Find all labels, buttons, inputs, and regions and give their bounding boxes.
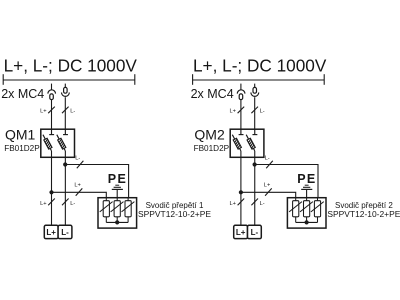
wire L+ from MC4 connector down to breaker QM1 (circuit 1) bbox=[51, 100, 53, 130]
svg-text:L+: L+ bbox=[46, 228, 56, 237]
varistor element 2 (PE leg) of surge arrester (circuit 2) bbox=[300, 198, 313, 223]
output terminal block L+ (circuit 1) bbox=[44, 225, 58, 238]
MC4 connector pair, L- pole: pin over socket (circuit 2) bbox=[251, 87, 259, 96]
svg-text:2x MC4: 2x MC4 bbox=[191, 87, 234, 101]
conductor mark (slash) on wire L+ below connector (circuit 1) bbox=[48, 107, 55, 114]
conductor mark (slash) on wire L- above terminal (circuit 2) bbox=[251, 199, 258, 206]
svg-text:L-: L- bbox=[70, 201, 75, 207]
svg-text:L-: L- bbox=[265, 155, 270, 161]
wire L+ branch to surge arrester: horizontal then down (circuit 1) bbox=[52, 192, 107, 200]
wire L+ from breaker QM1 down to L+ junction (circuit 1) bbox=[51, 151, 53, 192]
junction node on surge arrester common bar (circuit 2) bbox=[305, 220, 309, 224]
svg-text:FB01D2P: FB01D2P bbox=[4, 144, 40, 153]
wire L- from MC4 connector down to breaker QM1 (circuit 1) bbox=[64, 97, 66, 129]
common bottom bar inside surge arrester (circuit 2) bbox=[296, 221, 318, 223]
wire L+ top stub into MC4 connector (circuit 2) bbox=[240, 84, 242, 90]
common bottom bar inside surge arrester (circuit 1) bbox=[106, 221, 128, 223]
svg-text:L-: L- bbox=[75, 155, 80, 161]
svg-text:FB01D2P: FB01D2P bbox=[194, 144, 230, 153]
conductor mark (slash) on wire L- below connector (circuit 2) bbox=[251, 107, 258, 114]
MC4 connector pair, L+ pole: socket over pin (circuit 2) bbox=[237, 90, 245, 100]
junction node on L+ wire (circuit 2) bbox=[239, 190, 243, 194]
svg-text:L+, L-; DC 1000V: L+, L-; DC 1000V bbox=[4, 55, 138, 75]
svg-text:PE: PE bbox=[297, 172, 316, 186]
conductor mark (slash) on wire L+ below connector (circuit 2) bbox=[238, 107, 245, 114]
svg-text:L+: L+ bbox=[40, 201, 47, 207]
wire L+ from MC4 connector down to breaker QM2 (circuit 2) bbox=[240, 100, 242, 130]
svg-text:L+, L-; DC 1000V: L+, L-; DC 1000V bbox=[193, 55, 327, 75]
conductor mark (slash) on L- branch (circuit 2) bbox=[266, 161, 273, 168]
junction node on L+ wire (circuit 1) bbox=[49, 190, 53, 194]
earth / ground symbol PE, inverted above surge arrester (circuit 1) bbox=[112, 185, 123, 189]
wire L- branch to surge arrester: horizontal then down (circuit 2) bbox=[255, 165, 318, 198]
earth / ground symbol PE, inverted above surge arrester (circuit 2) bbox=[301, 185, 312, 189]
svg-text:L+: L+ bbox=[236, 228, 246, 237]
wire L+ from junction down to output terminal (circuit 1) bbox=[51, 192, 53, 225]
svg-text:L+: L+ bbox=[230, 201, 237, 207]
svg-text:L+: L+ bbox=[40, 108, 47, 114]
svg-text:L+: L+ bbox=[264, 182, 271, 188]
surge arrester F1 (Svodič přepětí 1) outline box (circuit 1) bbox=[98, 198, 137, 228]
output terminal block L- (circuit 2) bbox=[248, 225, 262, 238]
wire L- branch to surge arrester: horizontal then down (circuit 1) bbox=[65, 165, 128, 198]
svg-text:PE: PE bbox=[108, 172, 127, 186]
varistor element 1 (L+ leg) of surge arrester (circuit 2) bbox=[289, 198, 302, 223]
circuit breaker QM1 outline box (circuit 1) bbox=[41, 129, 75, 157]
varistor element 3 (L- leg) of surge arrester (circuit 2) bbox=[311, 198, 324, 223]
wire PE stem from earth symbol down into surge arrester (circuit 2) bbox=[306, 189, 308, 200]
wire L- from junction down to output terminal (circuit 2) bbox=[254, 165, 256, 226]
wire L+ from junction down to output terminal (circuit 2) bbox=[240, 192, 242, 225]
conductor mark (slash) on L- branch (circuit 1) bbox=[77, 161, 84, 168]
conductor mark (slash) on L+ branch (circuit 2) bbox=[265, 188, 272, 195]
svg-text:L+: L+ bbox=[230, 108, 237, 114]
svg-text:QM1: QM1 bbox=[5, 127, 36, 143]
wire L- top stub into MC4 connector (circuit 1) bbox=[64, 84, 66, 88]
breaker QM1 pole L-: fixed contact tick, blade and fuse body (circuit 1) bbox=[57, 129, 68, 151]
conductor mark (slash) on wire L+ above terminal (circuit 2) bbox=[238, 199, 245, 206]
varistor element 2 (PE leg) of surge arrester (circuit 1) bbox=[111, 198, 124, 223]
svg-text:L-: L- bbox=[260, 108, 265, 114]
wire L- from breaker QM2 down to L- junction (circuit 2) bbox=[254, 151, 256, 165]
output terminal block L+ (circuit 2) bbox=[234, 225, 248, 238]
svg-text:SPPVT12-10-2+PE: SPPVT12-10-2+PE bbox=[327, 209, 400, 219]
breaker QM1 pole L+: fixed contact tick, blade and fuse body (circuit 1) bbox=[43, 129, 54, 151]
output terminal block L- (circuit 1) bbox=[58, 225, 72, 238]
svg-text:2x MC4: 2x MC4 bbox=[1, 87, 44, 101]
conductor mark (slash) on wire L- above terminal (circuit 1) bbox=[62, 199, 69, 206]
wire L+ top stub into MC4 connector (circuit 1) bbox=[51, 84, 53, 90]
wire L- from breaker QM1 down to L- junction (circuit 1) bbox=[64, 151, 66, 165]
svg-text:L-: L- bbox=[251, 228, 259, 237]
junction node on L- wire (circuit 2) bbox=[253, 162, 257, 166]
surge arrester F2 (Svodič přepětí 2) outline box (circuit 2) bbox=[287, 198, 326, 228]
svg-text:L-: L- bbox=[70, 108, 75, 114]
conductor mark (slash) on L+ branch (circuit 1) bbox=[76, 188, 83, 195]
conductor mark (slash) on wire L+ above terminal (circuit 1) bbox=[48, 199, 55, 206]
varistor element 1 (L+ leg) of surge arrester (circuit 1) bbox=[100, 198, 113, 223]
dimension line for DC 1000V input span (circuit 1) bbox=[3, 74, 135, 85]
junction node on L- wire (circuit 1) bbox=[63, 162, 67, 166]
svg-text:L+: L+ bbox=[74, 182, 81, 188]
dimension line for DC 1000V input span (circuit 2) bbox=[193, 74, 325, 85]
junction node on surge arrester common bar (circuit 1) bbox=[115, 220, 119, 224]
wire PE stem from earth symbol down into surge arrester (circuit 1) bbox=[116, 189, 118, 200]
wire L+ branch to surge arrester: horizontal then down (circuit 2) bbox=[241, 192, 296, 200]
varistor element 3 (L- leg) of surge arrester (circuit 1) bbox=[122, 198, 135, 223]
wire L- from junction down to output terminal (circuit 1) bbox=[64, 165, 66, 226]
circuit breaker QM2 outline box (circuit 2) bbox=[230, 129, 264, 157]
wire L- from MC4 connector down to breaker QM2 (circuit 2) bbox=[254, 97, 256, 129]
svg-text:SPPVT12-10-2+PE: SPPVT12-10-2+PE bbox=[138, 209, 211, 219]
breaker QM2 pole L+: fixed contact tick, blade and fuse body (circuit 2) bbox=[232, 129, 243, 151]
wire L+ from breaker QM2 down to L+ junction (circuit 2) bbox=[240, 151, 242, 192]
breaker QM2 pole L-: fixed contact tick, blade and fuse body (circuit 2) bbox=[246, 129, 257, 151]
svg-text:QM2: QM2 bbox=[194, 127, 225, 143]
conductor mark (slash) on wire L- below connector (circuit 1) bbox=[62, 107, 69, 114]
svg-text:L-: L- bbox=[260, 201, 265, 207]
wire L- top stub into MC4 connector (circuit 2) bbox=[254, 84, 256, 88]
MC4 connector pair, L+ pole: socket over pin (circuit 1) bbox=[48, 90, 56, 100]
MC4 connector pair, L- pole: pin over socket (circuit 1) bbox=[62, 87, 70, 96]
svg-text:L-: L- bbox=[61, 228, 69, 237]
